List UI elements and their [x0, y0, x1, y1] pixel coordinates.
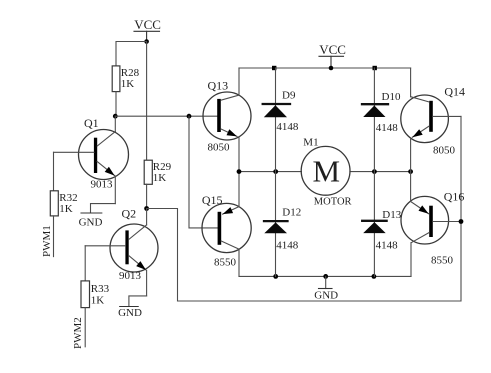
node dot bottom rail / D13	[372, 274, 377, 279]
transistor Q16	[401, 172, 464, 277]
wire VCC vertical down to R29	[146, 42, 148, 161]
node square junction top rail / D10	[373, 66, 377, 70]
transistor Q15	[202, 172, 251, 277]
resistor R29	[144, 160, 171, 184]
svg-text:GND: GND	[314, 289, 338, 301]
svg-text:GND: GND	[118, 307, 142, 319]
diode D13	[362, 209, 402, 252]
svg-text:Q15: Q15	[202, 193, 223, 207]
wire VCC top rail	[239, 67, 411, 69]
ground GND3 (bridge)	[314, 274, 338, 301]
ground GND2 (Q2 emitter)	[118, 296, 147, 319]
svg-text:Q2: Q2	[122, 207, 137, 221]
svg-text:4148: 4148	[276, 121, 299, 133]
resistor R32	[50, 191, 77, 216]
wire node A horizontal to Q13 base	[115, 115, 217, 117]
diode D9	[263, 90, 299, 133]
svg-text:8550: 8550	[214, 256, 237, 268]
svg-text:9013: 9013	[119, 270, 142, 282]
svg-text:Q14: Q14	[444, 85, 465, 99]
svg-text:D10: D10	[382, 91, 401, 103]
diode D10	[362, 91, 401, 134]
svg-text:8050: 8050	[433, 144, 456, 156]
svg-text:1K: 1K	[59, 203, 73, 215]
resistor R28	[112, 66, 139, 92]
node dot motor rail / D9-D12	[273, 169, 278, 174]
wire D9 column	[275, 68, 277, 172]
svg-text:GND: GND	[79, 216, 103, 228]
node dot branch to Q15 base	[187, 114, 192, 119]
svg-text:MOTOR: MOTOR	[314, 196, 352, 207]
transistor Q1	[54, 116, 129, 204]
node dot right base rail / Q16 base	[459, 219, 464, 224]
svg-text:9013: 9013	[91, 179, 114, 191]
svg-text:Q13: Q13	[208, 79, 229, 93]
wire motor rail left	[239, 171, 301, 173]
wire Q1 base to R32	[53, 152, 55, 191]
svg-text:Q1: Q1	[84, 116, 99, 130]
svg-text:VCC: VCC	[134, 17, 161, 32]
transistor Q13	[203, 68, 251, 172]
node B dot (Q2 collector node)	[144, 206, 149, 211]
power VCC (left)	[134, 17, 161, 42]
svg-text:R33: R33	[91, 283, 110, 295]
wire node B to right base rail (bottom route)	[147, 116, 461, 301]
node square junction top rail / D9	[272, 66, 276, 70]
wire bottom rail	[239, 275, 411, 277]
wire D12 column	[275, 172, 277, 277]
node dot motor rail / Q14-Q16	[408, 169, 413, 174]
wire R29 bottom to node B	[146, 184, 148, 208]
transistor Q14	[401, 68, 465, 172]
wire D13 column	[373, 172, 375, 277]
wire R28 bottom to node A	[115, 92, 117, 117]
wire D10 column	[373, 68, 375, 172]
svg-text:1K: 1K	[153, 172, 167, 184]
svg-text:VCC: VCC	[319, 42, 346, 57]
ground GND1 (Q1 emitter)	[79, 204, 116, 229]
svg-text:Q16: Q16	[444, 189, 465, 203]
node VCC junction dot	[144, 39, 149, 44]
svg-text:4148: 4148	[276, 240, 299, 252]
svg-text:D12: D12	[282, 207, 301, 219]
svg-text:M: M	[313, 154, 341, 189]
svg-text:PWM1: PWM1	[41, 225, 53, 257]
svg-text:PWM2: PWM2	[72, 317, 84, 349]
svg-text:4148: 4148	[376, 240, 399, 252]
node dot motor rail / Q13-Q15	[237, 169, 242, 174]
svg-text:D13: D13	[382, 209, 401, 221]
wire R33 to PWM2 terminal	[84, 308, 86, 347]
svg-text:8550: 8550	[431, 254, 454, 266]
wire R32 to PWM1 terminal	[53, 216, 55, 257]
node dot motor rail / D10-D13	[372, 169, 377, 174]
wire Q2 base to R33	[84, 246, 86, 281]
diode D12	[264, 207, 301, 252]
node A dot (Q1 collector node)	[113, 114, 118, 119]
wire motor rail right	[350, 171, 411, 173]
wire branch down to Q15 base	[189, 116, 218, 228]
resistor R33	[81, 281, 110, 308]
svg-text:4148: 4148	[376, 122, 399, 134]
motor M1	[301, 136, 351, 207]
svg-text:R32: R32	[59, 192, 77, 204]
svg-text:D9: D9	[282, 90, 296, 102]
power VCC (bridge)	[319, 42, 346, 70]
transistor Q2	[85, 207, 158, 296]
svg-text:1K: 1K	[91, 294, 105, 306]
svg-text:M1: M1	[303, 136, 318, 148]
wire VCC dot to R28 top	[116, 42, 147, 66]
node dot bottom rail / D12	[273, 274, 278, 279]
svg-text:8050: 8050	[208, 141, 231, 153]
svg-text:1K: 1K	[121, 78, 135, 90]
